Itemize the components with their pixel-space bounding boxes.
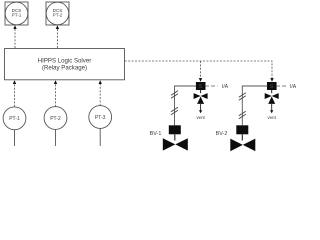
pressure transmitter PT-1 <box>3 107 26 146</box>
signal trunk: logic solver to solenoids (dashed) <box>125 61 272 79</box>
3-way valve of SV-2 <box>265 90 279 104</box>
signal drop wire to SV-2 solenoid handled by trunk; solenoid SV-2 body <box>267 82 277 90</box>
pneumatic output line: SV-2 to BV-2 actuator <box>242 86 267 125</box>
vent line of SV-2 (arrow down) <box>268 104 277 120</box>
ball valve BV-2 body <box>230 139 255 152</box>
pneumatic output line: SV-1 to BV-1 actuator <box>175 86 197 125</box>
signal drop to solenoid SV-1 (dashed, arrow down) <box>199 61 202 82</box>
signal wire: logic solver to DCS PT-2 (dashed, arrow up) <box>56 25 59 48</box>
HIPPS logic solver box <box>5 49 125 80</box>
signal wire: PT-2 to logic solver (dashed, arrow up) <box>54 80 57 107</box>
signal wire: PT-3 to logic solver (dashed, arrow up) <box>99 80 102 106</box>
pressure transmitter PT-3 <box>89 106 112 146</box>
svg-text:S: S <box>270 84 274 90</box>
svg-text:BV-1: BV-1 <box>150 131 162 137</box>
arrow into solenoid SV-2 <box>270 78 273 82</box>
3-way valve of SV-1 <box>194 90 208 104</box>
svg-text:vent: vent <box>268 115 277 120</box>
actuator of BV-1 <box>169 125 181 140</box>
svg-text:PT-1: PT-1 <box>9 116 20 122</box>
label BV-2 <box>216 131 228 137</box>
svg-text:PT-1: PT-1 <box>12 13 22 18</box>
vent line of SV-1 (arrow down) <box>196 104 205 120</box>
pressure transmitter PT-2 <box>44 107 67 146</box>
instrument air supply line to SV-1 <box>205 84 229 90</box>
pneumatic slash marks on SV-1 output line <box>171 91 178 115</box>
signal wire: logic solver to DCS PT-1 (dashed, arrow up) <box>13 25 16 48</box>
svg-text:I/A: I/A <box>222 84 229 90</box>
pneumatic slash marks on SV-2 output line <box>239 93 246 119</box>
solenoid SV-1 body <box>196 82 206 90</box>
svg-text:S: S <box>199 84 203 90</box>
instrument air supply line to SV-2 <box>276 84 297 90</box>
svg-text:PT-2: PT-2 <box>50 116 61 122</box>
svg-text:PT-2: PT-2 <box>53 13 63 18</box>
svg-text:PT-3: PT-3 <box>95 115 106 121</box>
DCS indicator PT-2 (shared display) <box>46 2 69 25</box>
DCS indicator PT-1 (shared display) <box>5 2 28 25</box>
actuator of BV-2 <box>236 125 248 140</box>
ball valve BV-1 body <box>163 138 188 150</box>
signal wire: PT-1 to logic solver (dashed, arrow up) <box>13 80 16 107</box>
svg-text:vent: vent <box>196 115 205 120</box>
svg-text:(Relay Package): (Relay Package) <box>42 64 87 71</box>
svg-text:I/A: I/A <box>290 84 297 90</box>
svg-text:BV-2: BV-2 <box>216 131 228 137</box>
label BV-1 <box>150 131 162 137</box>
